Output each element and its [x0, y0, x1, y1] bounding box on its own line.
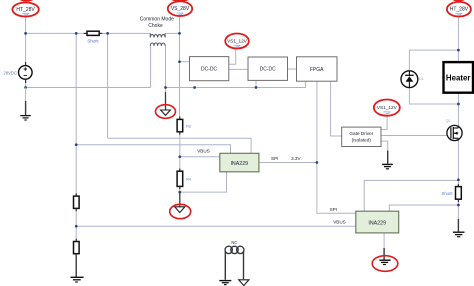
current monitor INA229 output — [356, 211, 399, 233]
svg-text:Q2: Q2 — [446, 119, 451, 123]
svg-text:VS_28V: VS_28V — [171, 6, 190, 12]
port VS_28V — [168, 1, 192, 16]
svg-text:INA229: INA229 — [368, 221, 386, 227]
resistor R4 — [177, 169, 183, 190]
dc-dc converter 1 — [190, 57, 229, 81]
red circle annotation — [156, 105, 176, 119]
svg-text:R4: R4 — [186, 177, 191, 181]
junction dot — [178, 60, 181, 63]
junction dot — [316, 161, 319, 164]
wire dc-dc2 to fpga — [288, 68, 297, 70]
wire SPI bus — [259, 162, 317, 164]
junction dot — [75, 143, 78, 146]
red cap annotation — [169, 0, 191, 2]
heater — [444, 62, 474, 93]
wire diode branch bottom — [409, 87, 458, 104]
bus wire right segment — [166, 81, 306, 88]
svg-text:DC-DC: DC-DC — [260, 67, 276, 73]
ground (output shunt) — [453, 219, 465, 237]
svg-text:FPGA: FPGA — [310, 67, 324, 73]
svg-text:VBUS: VBUS — [197, 149, 210, 154]
ground signal circled (choke) — [161, 92, 171, 115]
wire source to shunt — [457, 141, 459, 185]
svg-text:DC-DC: DC-DC — [201, 67, 217, 73]
wire shunt to ground — [457, 202, 459, 219]
wire VBUS to INA229 — [180, 156, 220, 158]
junction dot — [178, 191, 181, 194]
wire source bottom — [25, 82, 27, 88]
junction dot — [75, 32, 78, 35]
svg-text:Heater: Heater — [446, 73, 471, 82]
port VS1_12V right — [374, 100, 400, 116]
wire sense minus — [389, 205, 458, 211]
svg-text:D1: D1 — [419, 77, 424, 81]
red cap annotation — [450, 0, 467, 1]
svg-text:Shunt: Shunt — [442, 191, 454, 196]
wire VS1_12V right stem — [381, 116, 387, 130]
red cap annotation — [18, 0, 35, 2]
junction dot — [24, 86, 27, 89]
svg-text:(isolated): (isolated) — [352, 137, 372, 142]
svg-text:VS1_12V: VS1_12V — [377, 105, 398, 110]
bus wire left segment — [26, 87, 151, 89]
junction dot — [24, 32, 27, 35]
shunt resistor input — [84, 31, 103, 35]
junction dot — [457, 49, 460, 52]
wire dc-dc1 input — [180, 61, 190, 63]
junction dot — [457, 103, 460, 106]
FPGA — [297, 57, 338, 81]
junction dot — [106, 32, 109, 35]
wire R4 bottom — [179, 187, 181, 193]
junction dot — [75, 225, 78, 228]
resistor divider lower — [74, 239, 80, 254]
svg-text:Choke: Choke — [148, 23, 163, 29]
wire choke leg right — [165, 46, 167, 88]
junction dot — [193, 86, 196, 89]
wire INA229 bottom stub — [180, 172, 227, 192]
mosfet Q2 — [447, 125, 462, 140]
wire source top — [25, 33, 27, 62]
wire VS_28V rail down — [179, 17, 181, 34]
svg-text:Gate Driver: Gate Driver — [349, 131, 373, 136]
common mode choke winding 1 — [150, 33, 165, 37]
wire heater bottom — [457, 93, 459, 104]
junction dot — [457, 204, 460, 207]
port HT_28V right — [447, 2, 471, 17]
svg-text:NC: NC — [231, 240, 237, 245]
junction dot — [457, 178, 460, 181]
wire line B — [76, 145, 230, 154]
shunt resistor output — [456, 184, 462, 202]
wire gate driver to ground — [381, 141, 388, 151]
label Common Mode Choke — [140, 17, 174, 29]
dc-dc converter 2 — [248, 57, 288, 80]
wire diode branch top — [409, 50, 458, 71]
resistor R3 — [177, 117, 183, 135]
voltage source 28VDC — [19, 62, 33, 83]
wire dc-dc1 to dc-dc2 — [229, 68, 248, 70]
wire left rail — [75, 33, 77, 196]
svg-text:HT_28V: HT_28V — [16, 7, 35, 13]
wire fpga stub2 — [316, 81, 318, 162]
red circle annotation — [170, 204, 191, 218]
svg-text:Shunt: Shunt — [87, 39, 99, 44]
wire top rail — [26, 32, 84, 34]
ground signal (NC right) — [239, 280, 249, 286]
svg-text:SPI: SPI — [330, 207, 337, 212]
wire circled ground stem stub — [165, 88, 167, 94]
svg-text:INA229: INA229 — [230, 161, 248, 167]
svg-text:3.3V: 3.3V — [291, 156, 301, 161]
ground earth (NC left) — [219, 281, 231, 285]
wire fpga stub3 to gate driver — [331, 81, 342, 136]
unconnected choke NC — [225, 246, 244, 280]
wire VBUS long — [76, 225, 356, 227]
ground signal circled (R4) — [175, 192, 185, 213]
svg-text:28VDC: 28VDC — [4, 71, 18, 76]
svg-text:Common Mode: Common Mode — [140, 17, 174, 23]
resistor divider upper — [74, 193, 80, 211]
svg-text:SPI: SPI — [271, 156, 278, 161]
wire line A — [108, 138, 252, 153]
junction dot — [164, 86, 167, 89]
port HT_28V — [12, 3, 38, 17]
junction dot — [255, 86, 258, 89]
svg-text:VBUS: VBUS — [333, 219, 346, 224]
wire heater top — [457, 50, 459, 62]
red circle annotation — [372, 256, 398, 272]
wire sense plus — [364, 180, 458, 211]
ground (source) — [20, 88, 31, 121]
junction dot — [178, 32, 181, 35]
wire gate — [381, 135, 451, 137]
ground (left divider) — [71, 254, 84, 282]
wire dc-dc2 bottom stub — [255, 80, 257, 87]
wire SPI to INA229-2 — [317, 163, 356, 214]
wire — [25, 17, 27, 34]
common mode choke winding 2 — [150, 43, 165, 46]
current monitor INA229 — [220, 153, 259, 172]
svg-text:R3: R3 — [186, 125, 191, 129]
wire R3-R4 link — [179, 132, 181, 171]
port VS1_12V — [225, 34, 249, 49]
svg-text:HT_28V: HT_28V — [450, 7, 469, 13]
wire vertical from shunt junction — [107, 33, 109, 138]
wire left rail lower — [75, 208, 77, 241]
gate driver isolated — [342, 127, 381, 146]
wire drain — [457, 104, 459, 126]
svg-text:VS1_12V: VS1_12V — [227, 39, 248, 44]
wire — [165, 32, 179, 34]
wire top rail right of shunt — [102, 32, 150, 34]
ground earth circled (INA229-2) — [379, 248, 390, 265]
wire choke leg left — [150, 46, 152, 88]
wire VS1_12V stem — [229, 49, 236, 65]
diode D1 — [401, 71, 418, 88]
ground (gate driver) — [382, 151, 393, 169]
wire vertical VS rail — [179, 33, 181, 119]
wire INA229-2 ground stub — [383, 233, 385, 251]
junction dot — [178, 155, 181, 158]
wire HT_28V right stem — [457, 17, 459, 51]
